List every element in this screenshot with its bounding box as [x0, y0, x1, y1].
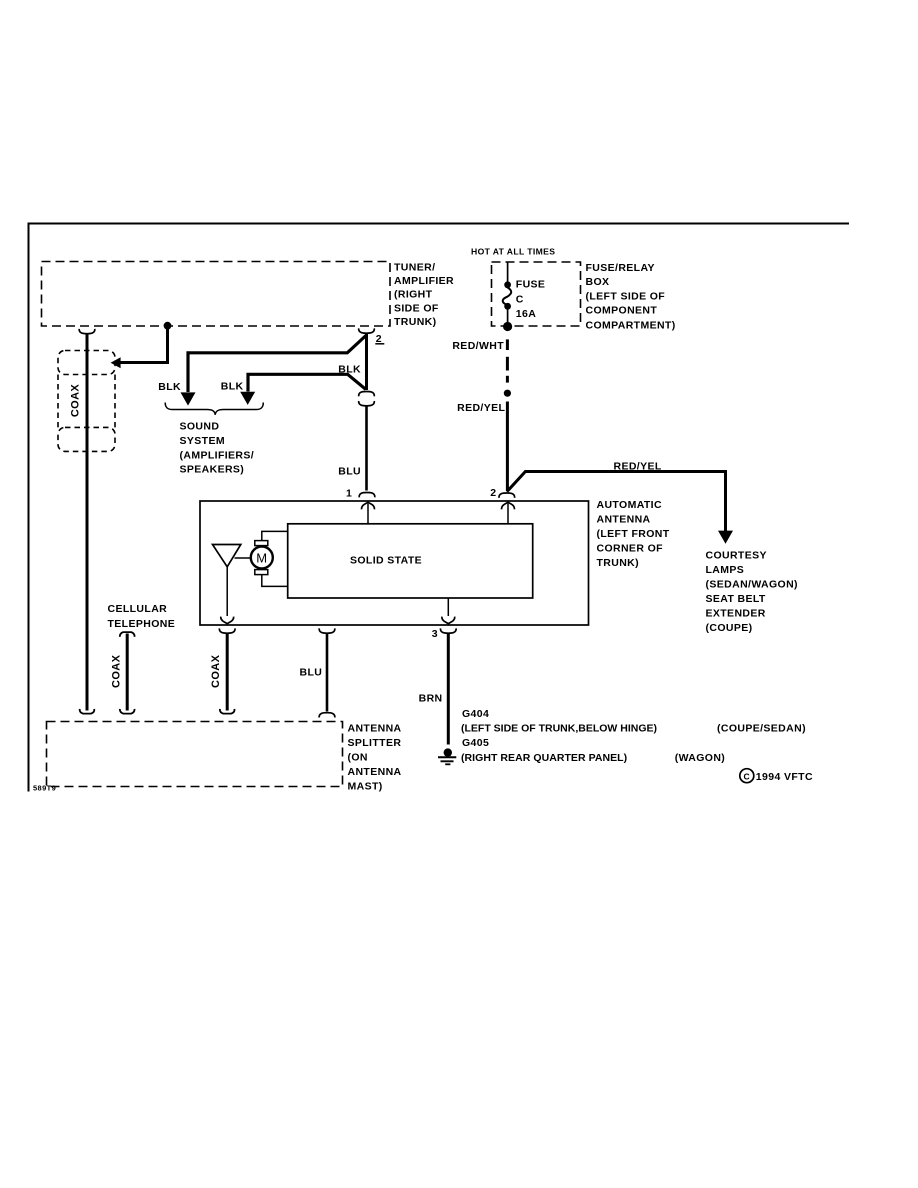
svg-text:ANTENNA: ANTENNA	[348, 723, 402, 735]
antenna mast triangle	[213, 545, 241, 567]
junction dot on tuner box bottom	[164, 322, 172, 330]
svg-text:HOT AT ALL TIMES: HOT AT ALL TIMES	[471, 247, 555, 257]
svg-text:ANTENNA: ANTENNA	[597, 514, 651, 526]
svg-text:(COUPE): (COUPE)	[706, 622, 753, 634]
tuner/amplifier label	[394, 262, 454, 328]
BLK arrow 2	[240, 392, 255, 405]
svg-text:ANTENNA: ANTENNA	[348, 766, 402, 778]
terminal arrow down at splitter	[80, 709, 95, 714]
svg-text:SIDE OF: SIDE OF	[394, 302, 439, 314]
connector 2 cup at top of BLU run	[359, 328, 375, 333]
sound system label	[180, 421, 255, 476]
svg-text:COURTESY: COURTESY	[706, 549, 767, 561]
junction dot at fuse box bottom	[503, 322, 512, 331]
svg-text:589T9: 589T9	[33, 784, 56, 793]
RED/YEL wire down to connector 2	[506, 402, 509, 492]
wire triangle to box bottom	[226, 567, 228, 616]
fuse C 16A	[503, 262, 546, 324]
pin 3 wire inside box	[447, 598, 449, 616]
antenna splitter label	[348, 723, 402, 793]
svg-text:BLU: BLU	[338, 466, 361, 478]
fuse/relay box dashed	[492, 262, 581, 326]
svg-text:BLU: BLU	[300, 666, 323, 678]
svg-text:SPEAKERS): SPEAKERS)	[180, 464, 245, 476]
svg-text:M: M	[256, 550, 267, 565]
svg-text:2: 2	[490, 487, 496, 499]
svg-text:SOLID STATE: SOLID STATE	[350, 555, 422, 567]
RED/WHT dashed wire	[506, 339, 509, 382]
svg-text:(AMPLIFIERS/: (AMPLIFIERS/	[180, 449, 255, 461]
coax wire (tuner to splitter)	[86, 334, 89, 711]
connector 3 and BRN wire	[440, 628, 456, 633]
svg-text:C: C	[744, 771, 751, 781]
motor bottom wire	[262, 575, 288, 587]
svg-text:COAX: COAX	[70, 384, 82, 418]
svg-text:COAX: COAX	[210, 654, 222, 688]
BLU wire from antenna box to splitter	[319, 628, 335, 633]
svg-text:2: 2	[376, 333, 382, 345]
svg-text:BRN: BRN	[419, 693, 443, 705]
svg-text:TRUNK): TRUNK)	[394, 316, 437, 328]
svg-text:(ON: (ON	[348, 752, 368, 764]
coax connector cup below tuner box	[79, 329, 95, 334]
svg-text:SOUND: SOUND	[180, 421, 220, 433]
svg-text:FUSE: FUSE	[516, 279, 546, 291]
courtesy lamps label	[706, 549, 798, 634]
svg-text:RED/YEL: RED/YEL	[457, 402, 505, 414]
motor top wire	[262, 531, 288, 540]
cellular telephone label	[108, 603, 176, 630]
svg-text:CORNER OF: CORNER OF	[597, 543, 664, 555]
BLK wire 2 (lower)	[248, 374, 366, 391]
solid arrow to courtesy lamps	[718, 531, 733, 544]
G404 G405 labels	[461, 708, 806, 764]
svg-text:FUSE/RELAY: FUSE/RELAY	[586, 262, 655, 274]
svg-text:TRUNK): TRUNK)	[597, 557, 640, 569]
pin 2 arrow inside box	[507, 504, 509, 524]
BLU wire down to connector 1	[365, 405, 368, 491]
svg-text:1: 1	[346, 488, 352, 500]
svg-text:(RIGHT: (RIGHT	[394, 289, 433, 301]
fuse/relay box label	[586, 262, 676, 332]
svg-text:(LEFT FRONT: (LEFT FRONT	[597, 528, 670, 540]
svg-text:AMPLIFIER: AMPLIFIER	[394, 275, 454, 287]
BLK arrow 1	[181, 392, 196, 405]
svg-text:SYSTEM: SYSTEM	[180, 435, 225, 447]
svg-text:RED/WHT: RED/WHT	[452, 340, 504, 352]
cellular telephone coax wire	[120, 632, 135, 637]
svg-text:BLK: BLK	[158, 381, 181, 393]
svg-text:BLK: BLK	[338, 363, 361, 375]
brace under BLK arrows	[165, 403, 263, 415]
frame border (top and left)	[29, 224, 850, 792]
svg-text:SPLITTER: SPLITTER	[348, 737, 402, 749]
svg-text:1994 VFTC: 1994 VFTC	[756, 771, 813, 783]
svg-text:G405: G405	[462, 737, 489, 749]
svg-text:COMPONENT: COMPONENT	[586, 305, 658, 317]
svg-text:(LEFT SIDE OF: (LEFT SIDE OF	[586, 290, 666, 302]
automatic antenna box	[200, 501, 589, 625]
connector 2 at antenna box (courtesy side)	[499, 493, 515, 498]
svg-text:SEAT BELT: SEAT BELT	[706, 593, 766, 605]
svg-text:TELEPHONE: TELEPHONE	[108, 618, 176, 630]
copyright 1994 VFTC	[740, 769, 813, 783]
svg-text:(LEFT SIDE OF TRUNK,BELOW HING: (LEFT SIDE OF TRUNK,BELOW HINGE)	[461, 722, 657, 734]
svg-text:(WAGON): (WAGON)	[675, 752, 725, 764]
antenna splitter dashed box	[47, 722, 343, 787]
coax cable symbol dashed	[58, 351, 115, 452]
coax wire from antenna box to splitter	[219, 628, 235, 633]
thick wire at connector 2	[365, 334, 368, 391]
motor M	[251, 547, 273, 569]
svg-text:BLK: BLK	[221, 381, 244, 393]
svg-text:(SEDAN/WAGON): (SEDAN/WAGON)	[706, 578, 798, 590]
svg-text:C: C	[516, 293, 524, 305]
svg-text:EXTENDER: EXTENDER	[706, 607, 766, 619]
solid arrow left into coax	[111, 357, 121, 368]
svg-text:RED/YEL: RED/YEL	[614, 460, 662, 472]
svg-text:COMPARTMENT): COMPARTMENT)	[586, 319, 676, 331]
connector 1	[359, 493, 375, 498]
svg-text:16A: 16A	[516, 308, 536, 320]
tuner/amplifier dashed box	[42, 262, 391, 327]
svg-text:(RIGHT REAR QUARTER PANEL): (RIGHT REAR QUARTER PANEL)	[461, 752, 627, 764]
ground symbol	[438, 748, 456, 764]
svg-text:(COUPE/SEDAN): (COUPE/SEDAN)	[717, 722, 806, 734]
svg-text:MAST): MAST)	[348, 781, 383, 793]
svg-text:G404: G404	[462, 708, 489, 720]
triangle to motor link	[235, 557, 251, 559]
pin 1 arrow inside box	[367, 504, 369, 524]
solid state box	[288, 524, 533, 598]
svg-text:COAX: COAX	[111, 654, 123, 688]
svg-text:CELLULAR: CELLULAR	[108, 603, 168, 615]
svg-text:TUNER/: TUNER/	[394, 262, 435, 274]
RED/YEL branch to courtesy lamps	[507, 472, 726, 532]
automatic antenna label	[597, 499, 670, 569]
junction dot	[504, 390, 511, 397]
svg-text:AUTOMATIC: AUTOMATIC	[597, 499, 662, 511]
inline connector pair on BLU run	[359, 392, 375, 397]
svg-text:LAMPS: LAMPS	[706, 564, 745, 576]
svg-text:3: 3	[432, 628, 438, 640]
svg-text:BOX: BOX	[586, 276, 610, 288]
BLK wire 1 (upper)	[188, 335, 367, 392]
wire from tuner to coax (left arrow)	[119, 326, 168, 363]
